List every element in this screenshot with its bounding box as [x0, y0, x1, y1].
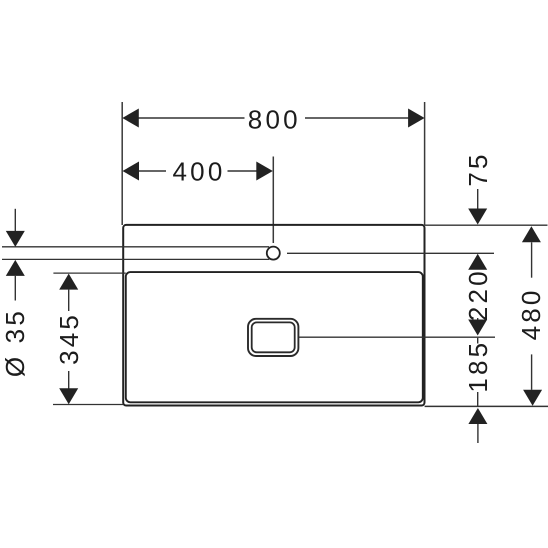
svg-text:400: 400	[173, 156, 226, 186]
svg-text:480: 480	[516, 287, 546, 340]
bottom edge extension to right	[425, 405, 548, 407]
center extension line	[272, 157, 274, 244]
bottom extension line left	[53, 404, 123, 406]
svg-text:800: 800	[248, 105, 301, 135]
top edge extension to right	[425, 224, 548, 226]
dimension 400 left arrow	[123, 162, 140, 181]
dimension 800 left arrow	[122, 109, 139, 128]
faucet hole circle	[267, 247, 280, 260]
drain outer outline	[248, 319, 298, 356]
extension line left (x=122)	[121, 102, 123, 225]
faucet hole center line right	[287, 252, 494, 254]
dimension 185 up arrow	[468, 408, 487, 424]
dimension 75 down arrow	[468, 209, 487, 225]
dimension D35 up arrow	[6, 260, 25, 276]
drain center line right	[299, 336, 495, 338]
dimension 345: leader line upper	[68, 290, 70, 311]
svg-text:185: 185	[463, 340, 493, 393]
svg-text:Ø 35: Ø 35	[0, 308, 30, 377]
dimension 220 up arrow	[468, 254, 487, 270]
dimension 185: leader tail below arrow	[477, 424, 479, 443]
basin outer outline	[123, 225, 424, 406]
dimension D35 down arrow	[6, 231, 25, 247]
dimension 800 label	[248, 105, 301, 135]
dimension D35: leader line below	[14, 276, 16, 301]
dimension 185: leader stub above	[477, 338, 479, 344]
faucet hole tangent line top	[2, 246, 269, 248]
drain inner outline	[252, 322, 295, 352]
dimension 345 down arrow	[59, 388, 78, 404]
dimension 400 label	[173, 156, 226, 186]
dimension 400 right arrow	[256, 162, 273, 181]
dimension 480: leader line lower	[531, 354, 533, 389]
dimension 345 label	[54, 312, 84, 365]
dimension 480 down arrow	[523, 390, 542, 406]
svg-text:220: 220	[463, 268, 493, 321]
dimension 800 right arrow	[408, 109, 425, 128]
dimension 800 line	[138, 117, 409, 119]
dimension 75: leader line	[477, 189, 479, 210]
dimension 185: leader line	[477, 392, 479, 406]
dimension 480 up arrow	[522, 226, 541, 242]
extension line right (x=425)	[424, 102, 426, 225]
svg-text:345: 345	[54, 312, 84, 365]
svg-text:75: 75	[463, 151, 493, 186]
dimension D35 label	[0, 308, 30, 377]
dimension 185 label	[463, 340, 493, 393]
dimension 220 label	[463, 268, 493, 321]
dimension 220 down arrow	[468, 320, 487, 336]
dimension 400 line	[138, 170, 257, 172]
dimension 480 label	[516, 287, 546, 340]
inner-top extension line left	[53, 272, 125, 274]
dimension 480: leader line upper	[531, 242, 533, 277]
dimension 345 up arrow	[59, 274, 78, 290]
dimension D35: leader line above	[14, 209, 16, 232]
basin inner body outline	[126, 272, 423, 402]
dimension 75 label	[463, 151, 493, 186]
dimension 220: leader line	[477, 318, 479, 322]
dimension 345: leader line lower	[68, 371, 70, 389]
faucet hole tangent line bottom	[2, 258, 269, 260]
